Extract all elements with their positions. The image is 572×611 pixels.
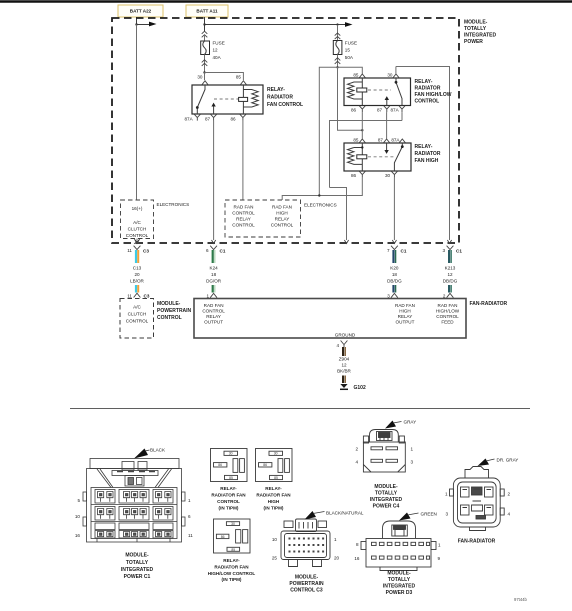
svg-text:86: 86: [218, 463, 222, 467]
relay3 armature core: [357, 155, 367, 159]
wire BATT A22 down to electronics: [136, 25, 138, 201]
svg-text:MODULE-: MODULE-: [374, 484, 398, 490]
relay pinout RADIATOR FAN CONTROL: [211, 449, 248, 482]
svg-text:30: 30: [229, 452, 233, 456]
wire K213 lower: [449, 285, 451, 293]
caption TIPM C4: [370, 484, 403, 510]
connector PCM C3 drawing: [281, 519, 330, 560]
label BLACK/NATURAL with arrow: [305, 511, 364, 520]
pin 86 relay1 bottom: [231, 114, 246, 121]
svg-text:86: 86: [231, 117, 237, 122]
svg-text:4: 4: [336, 343, 339, 348]
svg-text:86: 86: [351, 173, 357, 178]
svg-text:RELAY-: RELAY-: [223, 558, 240, 563]
svg-text:CLUTCH: CLUTCH: [128, 312, 147, 317]
svg-text:30: 30: [274, 452, 278, 456]
svg-text:MODULE-: MODULE-: [125, 553, 149, 559]
electronics block A/C clutch control: [121, 200, 154, 239]
svg-text:RAD FAN: RAD FAN: [272, 205, 292, 210]
wire relay1 86 to electronics: [242, 121, 244, 200]
svg-text:RELAY: RELAY: [398, 314, 413, 319]
relay3 switch blade 87A to 30: [394, 143, 403, 171]
pin numbers FAN-RADIATOR: [445, 492, 511, 517]
svg-text:POWERTRAIN: POWERTRAIN: [289, 581, 324, 587]
svg-text:2: 2: [508, 492, 511, 497]
svg-text:CONTROL: CONTROL: [157, 315, 182, 321]
svg-text:BK/BR: BK/BR: [337, 369, 351, 374]
component FAN-RADIATOR box: [194, 299, 466, 339]
pin 85 relay3 top: [353, 138, 365, 143]
pin 30 relay2 top: [387, 73, 399, 78]
svg-text:11: 11: [127, 248, 132, 253]
pin numbers TIPM D3: [354, 542, 441, 561]
svg-text:FAN HIGH: FAN HIGH: [415, 158, 439, 164]
svg-text:18: 18: [211, 272, 217, 277]
svg-text:3: 3: [445, 512, 448, 517]
wire K20 18 DB/DG upper: [394, 250, 396, 263]
pin 85 relay1 top: [236, 75, 247, 85]
svg-text:POWERTRAIN: POWERTRAIN: [157, 308, 192, 314]
svg-text:HIGH: HIGH: [268, 499, 280, 504]
relay3 coil winding: [348, 148, 363, 165]
pin 30 relay1 top: [197, 75, 208, 85]
relay3 contact 87 stub with arrow: [384, 143, 388, 154]
svg-text:86: 86: [221, 535, 225, 539]
svg-text:FUSE: FUSE: [345, 41, 357, 46]
svg-text:97t44b: 97t44b: [514, 597, 527, 602]
svg-text:7: 7: [387, 248, 390, 253]
label wire C13: [130, 266, 144, 284]
svg-text:GROUND: GROUND: [335, 333, 356, 338]
svg-text:FAN HIGH/LOW: FAN HIGH/LOW: [415, 92, 452, 98]
connector TIPM D3 drawing: [361, 521, 436, 571]
svg-text:BATT A22: BATT A22: [130, 9, 152, 14]
svg-text:RELAY-: RELAY-: [267, 87, 285, 93]
svg-text:85: 85: [274, 476, 278, 480]
svg-text:CONTROL: CONTROL: [217, 499, 240, 504]
svg-text:DB/DG: DB/DG: [443, 279, 458, 284]
connector TIPM C4 drawing: [363, 430, 405, 473]
wire fuse 12 output chevrons: [202, 55, 208, 74]
wire relay2 pin30 up and right to C1-3 drop: [396, 67, 450, 241]
relay2 actuator dashed link: [368, 89, 391, 91]
svg-text:K20: K20: [390, 266, 399, 271]
pin numbers PCM C3: [272, 537, 340, 561]
wire A/C clutch to border arrow: [134, 239, 140, 244]
svg-text:87: 87: [377, 108, 383, 113]
pin 87 relay2 bottom: [377, 106, 390, 113]
relay1 coil winding: [243, 90, 258, 108]
wire fuse15 down to relay2 pin86 net: [338, 67, 364, 131]
svg-text:16: 16: [75, 533, 81, 538]
svg-text:8: 8: [356, 542, 359, 547]
label relay2: [415, 79, 452, 105]
svg-text:CONTROL: CONTROL: [232, 211, 255, 216]
svg-text:20: 20: [134, 272, 140, 277]
relay K3 RADIATOR FAN HIGH box: [344, 143, 411, 171]
svg-text:CONTROL: CONTROL: [232, 223, 255, 228]
caption relay fan control: [211, 486, 246, 511]
svg-text:85: 85: [236, 75, 242, 80]
wire C13 20 LB/OR lower: [136, 285, 138, 293]
svg-text:A/C: A/C: [133, 305, 141, 310]
svg-text:87A: 87A: [391, 138, 400, 143]
svg-text:RELAY-: RELAY-: [265, 486, 282, 491]
pin 87A relay1 bottom: [185, 114, 201, 121]
svg-text:HIGH: HIGH: [399, 309, 410, 314]
label wire K213: [443, 266, 458, 284]
svg-text:85: 85: [353, 73, 359, 78]
svg-text:FEED: FEED: [441, 320, 454, 325]
label wire K24: [206, 266, 222, 284]
relay1 coil line 85-86: [242, 85, 244, 114]
svg-text:HIGH: HIGH: [276, 211, 287, 216]
fuse F15 (FUSE 15 50A): [333, 41, 357, 61]
svg-text:BLACK/NATURAL: BLACK/NATURAL: [326, 511, 364, 516]
pin 87 relay3 top: [378, 138, 390, 143]
pin 87 relay1 bottom: [205, 114, 217, 121]
svg-text:1: 1: [411, 447, 414, 452]
svg-text:87: 87: [378, 138, 384, 143]
caption TIPM C1: [121, 553, 154, 581]
pin 1 fan radiator: [206, 293, 217, 298]
svg-text:RELAY-: RELAY-: [415, 79, 433, 85]
svg-text:RAD FAN: RAD FAN: [234, 205, 254, 210]
svg-text:30: 30: [197, 75, 203, 80]
wire fuse12 to relay1 pins 30 and 85: [205, 73, 244, 81]
node BATT A22: [118, 5, 163, 17]
svg-text:INTEGRATED: INTEGRATED: [370, 497, 403, 503]
label wire K20: [387, 266, 402, 284]
grid PCM C3 terminals: [289, 538, 325, 553]
svg-text:12: 12: [341, 363, 347, 368]
wire A11 branch down to fuse 15: [335, 25, 341, 41]
svg-text:ELECTRONICS: ELECTRONICS: [157, 202, 190, 207]
svg-text:25: 25: [272, 556, 278, 561]
svg-text:MODULE-: MODULE-: [295, 575, 319, 581]
svg-text:11: 11: [127, 294, 132, 299]
svg-text:30: 30: [387, 73, 393, 78]
svg-text:TOTALLY: TOTALLY: [464, 26, 487, 32]
pin 85 relay2 top: [353, 73, 365, 78]
svg-text:C1: C1: [456, 249, 462, 254]
svg-text:DB/DG: DB/DG: [387, 279, 402, 284]
svg-text:RAD FAN: RAD FAN: [395, 303, 415, 308]
pin 30 relay3 bottom: [385, 171, 397, 178]
label relay3: [415, 144, 441, 164]
svg-text:40A: 40A: [213, 55, 222, 60]
svg-text:(IN TIPM): (IN TIPM): [219, 506, 239, 511]
svg-text:FUSE: FUSE: [213, 41, 225, 46]
svg-text:LB/OR: LB/OR: [130, 279, 144, 284]
svg-text:K213: K213: [445, 266, 456, 271]
svg-text:TOTALLY: TOTALLY: [388, 577, 411, 583]
label MODULE-TOTALLY INTEGRATED POWER: [464, 20, 497, 46]
svg-text:POWER C1: POWER C1: [124, 574, 151, 580]
svg-text:4: 4: [508, 512, 511, 517]
svg-text:1: 1: [438, 543, 441, 548]
wire A11 into fuse 12 with inline connector chevrons: [202, 31, 208, 41]
svg-text:18: 18: [392, 272, 398, 277]
svg-text:Z904: Z904: [339, 357, 350, 362]
svg-text:RADIATOR: RADIATOR: [415, 86, 441, 92]
svg-text:OUTPUT: OUTPUT: [396, 320, 415, 325]
svg-text:DG/OR: DG/OR: [206, 279, 222, 284]
wire fuse 15 output chevrons to junction: [335, 55, 341, 69]
svg-text:CONTROL C3: CONTROL C3: [290, 588, 323, 594]
wire K24 lower: [213, 285, 215, 293]
svg-text:CONTROL: CONTROL: [202, 309, 225, 314]
svg-text:TOTALLY: TOTALLY: [375, 491, 398, 497]
pin 86 relay3 bottom: [351, 171, 365, 178]
svg-text:87: 87: [205, 117, 211, 122]
svg-text:87A: 87A: [185, 117, 194, 122]
wire relay3 30 to connector C1-7: [392, 178, 396, 244]
wire BATT A11 feed branch with arrow: [203, 17, 352, 31]
wire relay1 87 to connector C1-6: [212, 121, 216, 244]
relay2 switch blade 30 to 87A: [395, 78, 402, 106]
caption relay fan high/low control: [208, 558, 256, 582]
svg-text:87A: 87A: [391, 108, 400, 113]
module PCM dashed box: [120, 299, 154, 339]
svg-text:3: 3: [442, 248, 445, 253]
svg-text:FAN CONTROL: FAN CONTROL: [267, 102, 303, 108]
svg-text:RADIATOR: RADIATOR: [415, 151, 441, 157]
relay1 contact 87 stub with arrow: [211, 103, 215, 114]
svg-text:OUTPUT: OUTPUT: [204, 320, 223, 325]
relay K1 RADIATOR FAN CONTROL box: [192, 85, 263, 114]
pin 11 connector C3 PCM: [127, 293, 150, 298]
svg-text:POWER C4: POWER C4: [373, 504, 400, 510]
label BLACK with arrow: [134, 448, 166, 459]
wire relay2 87 to relay3 87: [386, 112, 388, 139]
svg-text:30: 30: [385, 173, 391, 178]
relay pinout RADIATOR FAN HIGH: [256, 449, 293, 482]
pin 87A relay2 bottom: [391, 106, 406, 113]
svg-text:A/C: A/C: [133, 220, 141, 225]
svg-text:RELAY: RELAY: [275, 217, 290, 222]
wire K24 18 DG/OR upper: [213, 250, 215, 263]
electronics block rad fan relay controls: [225, 200, 301, 237]
svg-text:9: 9: [438, 556, 441, 561]
svg-text:G102: G102: [354, 385, 366, 391]
svg-text:C1: C1: [220, 249, 226, 254]
label MODULE-POWERTRAIN CONTROL: [157, 301, 192, 321]
svg-text:C1: C1: [401, 249, 407, 254]
label GREEN with arrow: [399, 512, 437, 521]
relay pinout RADIATOR FAN HIGH/LOW CONTROL: [214, 519, 251, 553]
wire relay2 87A to border exit: [330, 112, 403, 243]
svg-text:INTEGRATED: INTEGRATED: [464, 33, 497, 39]
bottom tabs PCM C3: [289, 560, 322, 567]
relay1 actuator dashed link: [214, 98, 238, 100]
relay2 coil line 85-86: [361, 78, 363, 106]
label wire Z904: [337, 357, 351, 374]
wire relay3 86 to electronics high relay control: [282, 178, 362, 200]
svg-text:INTEGRATED: INTEGRATED: [383, 584, 416, 590]
svg-text:(IN TIPM): (IN TIPM): [264, 506, 284, 511]
svg-text:MODULE-: MODULE-: [157, 301, 181, 307]
arrow wire C1-3 at module border: [447, 240, 451, 244]
svg-text:MODULE-: MODULE-: [464, 20, 488, 26]
wire K213 12 DB/DG upper: [449, 250, 451, 263]
pin 2 fan radiator: [443, 293, 454, 298]
svg-text:RADIATOR FAN: RADIATOR FAN: [256, 493, 291, 498]
svg-text:16(+): 16(+): [132, 206, 143, 211]
relay3 actuator dashed link: [368, 156, 395, 158]
page top rule: [0, 0, 572, 2]
svg-text:RAD FAN: RAD FAN: [204, 303, 224, 308]
fuse F12 (FUSE 12 40A): [201, 41, 225, 61]
svg-text:2: 2: [355, 447, 358, 452]
relay2 coil winding: [348, 82, 363, 99]
pin 7 connector C1 TIPM: [387, 246, 407, 254]
svg-text:POWER D3: POWER D3: [386, 590, 413, 596]
svg-text:POWER: POWER: [464, 39, 483, 45]
svg-text:GRAY: GRAY: [404, 420, 417, 425]
svg-text:11: 11: [188, 533, 193, 538]
wire Z904 12 BK/BR upper: [343, 347, 345, 356]
svg-text:6: 6: [188, 514, 191, 519]
svg-text:RADIATOR: RADIATOR: [267, 95, 293, 101]
svg-text:85: 85: [353, 138, 359, 143]
label GRAY with arrow: [385, 420, 416, 429]
caption TIPM D3: [383, 571, 416, 597]
svg-text:50A: 50A: [345, 55, 354, 60]
wire Z904 lower: [343, 376, 345, 384]
svg-text:1: 1: [334, 537, 337, 542]
svg-text:86: 86: [351, 108, 357, 113]
wire C13 20 LB/OR upper: [136, 250, 138, 263]
svg-text:C13: C13: [133, 266, 142, 271]
svg-text:16: 16: [354, 556, 360, 561]
svg-text:85: 85: [231, 548, 235, 552]
svg-text:3: 3: [411, 460, 414, 465]
pin 87A relay3 top: [391, 138, 405, 143]
svg-text:20: 20: [334, 556, 340, 561]
svg-text:30: 30: [231, 522, 235, 526]
svg-text:(IN TIPM): (IN TIPM): [222, 577, 242, 582]
svg-text:6: 6: [206, 248, 209, 253]
svg-text:10: 10: [272, 537, 278, 542]
svg-text:TOTALLY: TOTALLY: [126, 560, 149, 566]
svg-text:K24: K24: [210, 266, 219, 271]
svg-text:4: 4: [355, 460, 358, 465]
relay1 armature core: [239, 97, 248, 101]
svg-text:HIGH/LOW: HIGH/LOW: [436, 309, 460, 314]
ground G102 symbol: [340, 384, 348, 389]
svg-text:BLACK: BLACK: [150, 448, 166, 453]
svg-text:RELAY-: RELAY-: [220, 486, 237, 491]
svg-text:CONTROL: CONTROL: [271, 223, 294, 228]
relay3 coil line 85-86: [354, 143, 364, 171]
svg-text:ELECTRONICS: ELECTRONICS: [304, 203, 337, 208]
pin 3 fan radiator: [387, 293, 398, 298]
pin 86 relay2 bottom: [351, 106, 365, 113]
section divider rule: [70, 408, 530, 410]
relay1 switch blade 30 to 87A: [196, 85, 205, 114]
svg-text:GREEN: GREEN: [421, 512, 437, 517]
svg-text:RELAY-: RELAY-: [415, 144, 433, 150]
svg-text:12: 12: [213, 48, 219, 53]
svg-text:86: 86: [263, 463, 267, 467]
pin 6 connector C1 TIPM: [206, 246, 226, 254]
relay2 armature core: [357, 88, 367, 92]
svg-text:DR. GRAY: DR. GRAY: [497, 458, 519, 463]
svg-text:10: 10: [75, 514, 81, 519]
svg-text:C3: C3: [143, 249, 149, 254]
module TIPM dashed border: [112, 18, 459, 243]
pin numbers TIPM C4: [355, 447, 413, 465]
svg-text:RADIATOR FAN: RADIATOR FAN: [214, 564, 249, 569]
svg-text:CONTROL: CONTROL: [436, 314, 459, 319]
svg-text:C3: C3: [144, 294, 150, 299]
svg-text:RAD FAN: RAD FAN: [438, 303, 458, 308]
svg-text:1: 1: [188, 498, 191, 503]
svg-text:FAN-RADIATOR: FAN-RADIATOR: [458, 539, 496, 545]
pin numbers TIPM C1: [75, 498, 193, 538]
svg-text:RELAY: RELAY: [236, 217, 251, 222]
label relay1: [267, 87, 303, 108]
label DR. GRAY with arrow: [478, 458, 519, 467]
svg-text:12: 12: [447, 272, 453, 277]
wire BATT A22 feed with arrow: [135, 17, 156, 26]
connector FAN-RADIATOR drawing: [450, 467, 505, 531]
svg-text:CONTROL: CONTROL: [126, 319, 149, 324]
connector TIPM C1 drawing: [83, 459, 185, 543]
caption PCM C3: [289, 575, 324, 594]
svg-text:INTEGRATED: INTEGRATED: [121, 567, 154, 573]
wire K20 lower: [394, 285, 396, 293]
relay K2 RADIATOR FAN HIGH/LOW CONTROL box: [344, 78, 411, 106]
svg-text:CLUTCH: CLUTCH: [128, 227, 147, 232]
pin 11 connector C3 TIPM: [127, 246, 149, 254]
svg-text:FAN-RADIATOR: FAN-RADIATOR: [470, 301, 508, 307]
relay2 contact 87 stub with arrow: [385, 96, 389, 105]
svg-text:CONTROL: CONTROL: [415, 99, 440, 105]
svg-text:RELAY: RELAY: [206, 314, 221, 319]
svg-text:MODULE-: MODULE-: [387, 571, 411, 577]
pin 3 connector C1 TIPM right: [442, 246, 462, 254]
svg-text:15: 15: [345, 48, 351, 53]
wire fuse15 bus to relay2 pin85 and left drop: [319, 67, 362, 195]
svg-text:CONTROL: CONTROL: [126, 233, 149, 238]
svg-text:85: 85: [229, 476, 233, 480]
svg-text:BATT A11: BATT A11: [196, 9, 218, 14]
svg-text:RADIATOR FAN: RADIATOR FAN: [211, 493, 246, 498]
svg-text:1: 1: [445, 492, 448, 497]
svg-text:5: 5: [77, 498, 80, 503]
wire relay2 86 to relay3 85: [361, 112, 363, 139]
svg-text:HIGH/LOW CONTROL: HIGH/LOW CONTROL: [208, 571, 256, 576]
caption relay fan high: [256, 486, 291, 511]
pin 4 fan radiator ground: [336, 341, 347, 349]
node BATT A11: [186, 5, 228, 17]
